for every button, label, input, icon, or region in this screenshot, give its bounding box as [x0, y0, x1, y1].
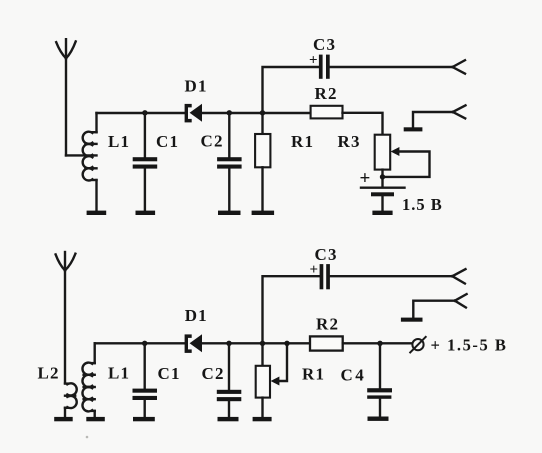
potentiometer R1 (bottom circuit) — [256, 343, 270, 417]
svg-text:D1: D1 — [185, 306, 208, 325]
node C4 junction (bottom) — [377, 341, 382, 346]
node C1 junction (top) — [142, 110, 147, 115]
ground under C1 (top) — [136, 211, 156, 215]
svg-text:R1: R1 — [291, 132, 314, 151]
node wiper junction (bottom) — [284, 341, 289, 346]
wire D1 to R2 (top main) — [202, 112, 311, 114]
wire R2 to supply terminal (bottom) — [343, 342, 412, 344]
earphone plug fork upper (top) — [453, 60, 466, 73]
wiper arrow of R3 — [383, 147, 430, 177]
earphone plug fork upper (bottom) — [452, 269, 465, 283]
svg-text:C3: C3 — [315, 245, 338, 264]
wire D1 to R2 (bottom main) — [202, 342, 310, 344]
diode D1 (bottom circuit) — [185, 334, 202, 353]
svg-text:L2: L2 — [38, 364, 60, 383]
ground under C2 (bottom) — [218, 417, 239, 421]
resistor R2 (bottom circuit) — [310, 336, 343, 350]
svg-text:R3: R3 — [338, 132, 361, 151]
wire up to C3 branch (bottom) — [263, 276, 320, 343]
node C1 junction (bottom) — [142, 341, 147, 346]
wire antenna lead-in down — [65, 58, 67, 155]
capacitor C3 polarized (top circuit) — [319, 55, 330, 79]
antenna (bottom circuit) — [56, 252, 76, 270]
ground under L2 (bottom) — [54, 417, 72, 421]
coil L1 (top circuit) — [83, 113, 97, 211]
ground bar earphone (top) — [404, 127, 423, 131]
earphone plug fork lower (top) — [453, 105, 466, 118]
wire earphone return to ground (top) — [413, 112, 453, 127]
battery GB1 1.5V (top circuit) — [361, 188, 405, 211]
paper speck — [86, 436, 89, 439]
diode D1 (top circuit) — [185, 104, 202, 123]
coil L1 (bottom circuit) — [82, 343, 94, 417]
wire antenna tap to coil L1 — [66, 154, 97, 156]
svg-text:1.5 В: 1.5 В — [402, 195, 443, 214]
wire R2 to R3 (top) — [343, 113, 383, 135]
svg-text:C3: C3 — [313, 35, 336, 54]
wire C3 to earphone (top) — [330, 66, 453, 68]
antenna (top circuit) — [56, 39, 75, 58]
svg-text:C2: C2 — [202, 364, 225, 383]
node R1 junction (bottom) — [260, 341, 265, 346]
wiper arrow of R1 (bottom) — [271, 343, 287, 385]
svg-text:R2: R2 — [316, 314, 339, 333]
ground under R1 (bottom) — [253, 417, 272, 421]
svg-text:L1: L1 — [108, 364, 130, 383]
node R3 bottom junction — [380, 174, 385, 179]
svg-text:+: + — [360, 168, 372, 189]
svg-text:C2: C2 — [201, 132, 224, 151]
capacitor C1 (top circuit) — [133, 113, 158, 211]
ground under C1 (bottom) — [133, 417, 155, 421]
svg-text:L1: L1 — [108, 132, 130, 151]
svg-text:+: + — [310, 262, 320, 278]
svg-text:C1: C1 — [158, 364, 181, 383]
wire earphone return to ground (bottom) — [413, 301, 455, 318]
node R1/C3 junction (top) — [260, 110, 265, 115]
ground under battery (top) — [372, 211, 392, 215]
svg-text:R2: R2 — [315, 84, 338, 103]
svg-text:C1: C1 — [156, 132, 179, 151]
wire main horizontal (top, L1 to D1) — [97, 112, 185, 114]
capacitor C2 (bottom circuit) — [217, 343, 242, 417]
svg-text:+: + — [309, 53, 319, 69]
capacitor C2 (top circuit) — [217, 113, 242, 211]
wire C3 to earphone (bottom) — [330, 275, 452, 277]
capacitor C4 (bottom circuit) — [367, 343, 392, 416]
wire antenna lead-in down (bottom) — [64, 270, 66, 383]
earphone plug fork lower (bottom) — [455, 294, 467, 307]
capacitor C1 (bottom circuit) — [133, 343, 158, 417]
ground under R1 (top) — [252, 211, 275, 215]
ground under L1 (top) — [87, 211, 107, 215]
node C2 junction (bottom) — [226, 341, 231, 346]
resistor R1 (top circuit) — [255, 113, 270, 211]
coil L2 (bottom circuit) — [65, 383, 77, 417]
wire up to C3 branch (top) — [263, 67, 319, 113]
svg-text:+ 1.5-5 В: + 1.5-5 В — [431, 336, 508, 355]
ground bar earphone (bottom) — [401, 318, 423, 322]
resistor R2 (top circuit) — [311, 106, 343, 119]
capacitor C3 polarized (bottom circuit) — [320, 264, 330, 289]
svg-text:C4: C4 — [341, 366, 367, 385]
svg-text:R1: R1 — [302, 364, 325, 383]
node C2 junction (top) — [227, 110, 232, 115]
ground under C4 (bottom) — [368, 417, 389, 421]
wire main horizontal (bottom, L1 to D1) — [95, 342, 185, 344]
ground under L1 (bottom) — [86, 417, 105, 421]
supply terminal circle (bottom) — [410, 337, 426, 353]
svg-text:D1: D1 — [185, 77, 208, 96]
potentiometer R3 (top circuit) — [375, 135, 391, 187]
ground under C2 (top) — [218, 211, 241, 215]
